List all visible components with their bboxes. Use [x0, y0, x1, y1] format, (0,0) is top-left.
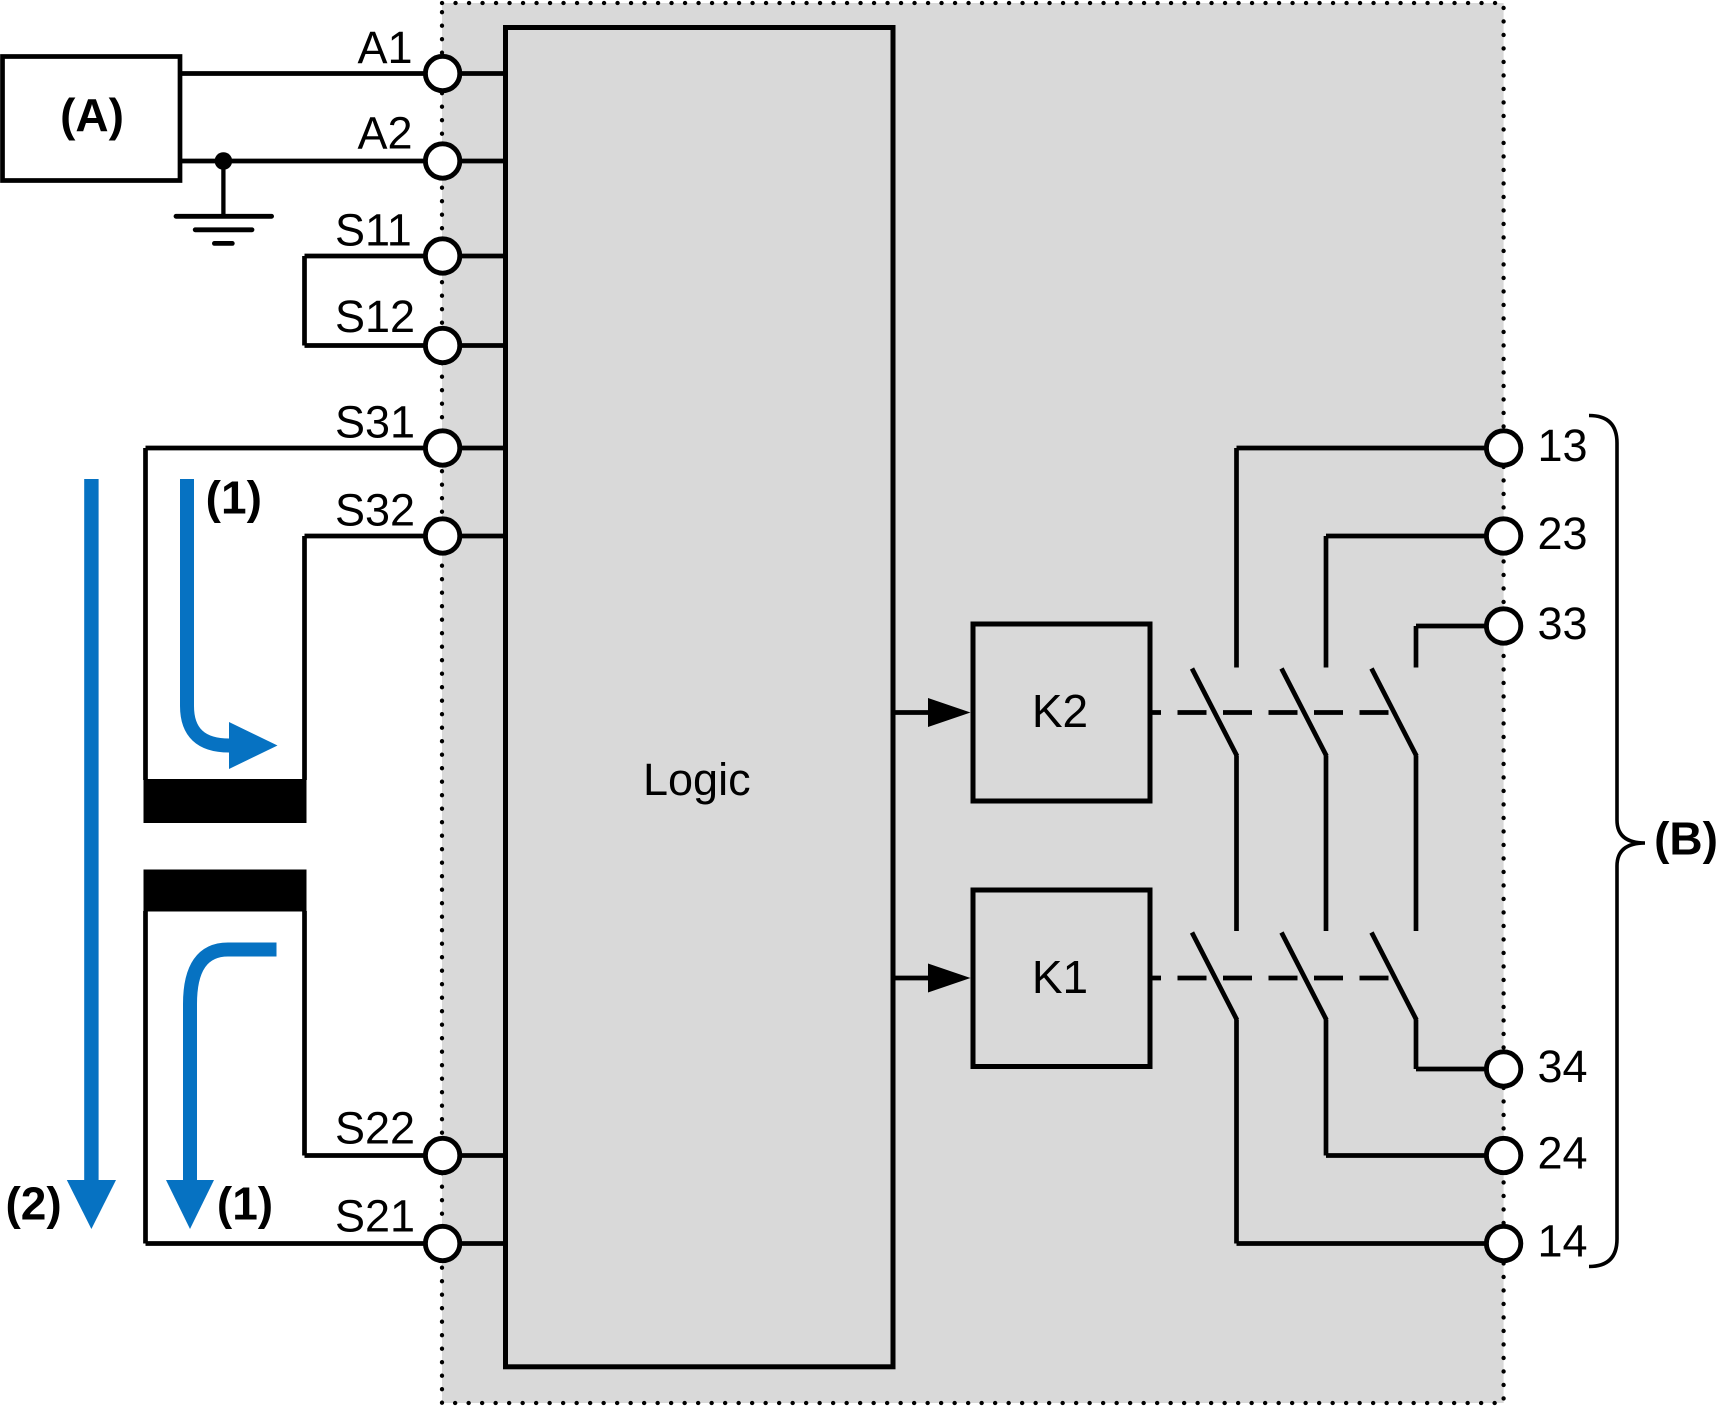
wire 24: [1326, 1153, 1504, 1158]
wire S22: [305, 1153, 506, 1158]
contact K2.3 blade: [1372, 669, 1417, 757]
terminal S22: [425, 1138, 459, 1172]
terminal 13: [1486, 431, 1520, 465]
terminal circles left: [425, 56, 459, 1260]
blue arrow (2) long: [67, 479, 116, 1229]
svg-text:S12: S12: [335, 291, 415, 342]
svg-text:23: 23: [1538, 508, 1588, 559]
svg-text:S31: S31: [335, 397, 415, 448]
terminal 33: [1486, 609, 1520, 643]
svg-text:S11: S11: [335, 205, 412, 256]
contact K2.2 blade: [1282, 669, 1327, 757]
switch contact block lower: [144, 870, 307, 912]
wire S11-S12 jumper: [302, 256, 307, 346]
blue arrow (1) upper: [187, 479, 278, 769]
svg-text:A2: A2: [358, 108, 413, 159]
svg-text:S32: S32: [335, 485, 415, 536]
contact chain 13-14: [1192, 448, 1504, 1244]
Logic box U3: [506, 28, 894, 1367]
wire S31: [146, 446, 506, 451]
terminal 14: [1486, 1226, 1520, 1260]
svg-text:14: 14: [1538, 1216, 1588, 1267]
junction dot on A2: [215, 152, 233, 170]
wire 13: [1237, 446, 1504, 451]
contact K1.1 blade: [1192, 933, 1237, 1021]
svg-text:34: 34: [1538, 1041, 1588, 1092]
relay K2: [973, 624, 1150, 801]
contact K1.3 blade: [1372, 933, 1417, 1021]
terminal A1: [425, 56, 459, 90]
wire S11: [305, 254, 506, 259]
terminal S31: [425, 431, 459, 465]
svg-text:(A): (A): [60, 89, 124, 141]
svg-text:24: 24: [1538, 1128, 1588, 1179]
wire A1: [180, 71, 506, 76]
blue arrow (1) lower: [166, 950, 277, 1230]
svg-text:S22: S22: [335, 1103, 415, 1154]
svg-text:(2): (2): [5, 1178, 61, 1230]
wire 14: [1237, 1241, 1504, 1246]
terminal 24: [1486, 1138, 1520, 1172]
wire S21: [146, 1241, 506, 1246]
contact K1.2 blade: [1282, 933, 1327, 1021]
svg-text:A1: A1: [358, 22, 413, 73]
svg-text:(1): (1): [206, 472, 262, 524]
block (A) power supply: [3, 57, 181, 181]
contact chain 33-34: [1372, 626, 1504, 1069]
svg-text:S21: S21: [335, 1191, 415, 1242]
terminal S11: [425, 239, 459, 273]
dashed actuation line K2: [1150, 710, 1390, 715]
wire A2: [180, 159, 506, 164]
svg-text:K2: K2: [1032, 685, 1088, 737]
wire S32: [305, 534, 506, 539]
svg-text:(1): (1): [217, 1178, 273, 1230]
svg-text:33: 33: [1538, 598, 1588, 649]
terminal 23: [1486, 519, 1520, 553]
ground: [176, 161, 272, 243]
relay K1: [973, 890, 1150, 1067]
terminal 34: [1486, 1052, 1520, 1086]
wire S21 vertical: [143, 911, 148, 1244]
terminal labels right: [1538, 420, 1588, 1267]
terminal A2: [425, 144, 459, 178]
terminal S21: [425, 1226, 459, 1260]
arrow into K2: [893, 710, 929, 715]
brace (B): [1589, 416, 1645, 1267]
wire S31 vertical: [143, 448, 148, 780]
contact K2.1 blade: [1192, 669, 1237, 757]
wire S12: [305, 343, 506, 348]
svg-text:(B): (B): [1654, 813, 1718, 865]
wire 33: [1416, 624, 1504, 629]
svg-text:K1: K1: [1032, 951, 1088, 1003]
dashed actuation line K1: [1150, 976, 1390, 981]
wire 34: [1416, 1067, 1504, 1072]
wire S32 vertical: [302, 536, 307, 780]
wire S22 vertical: [302, 911, 307, 1156]
contact chain 23-24: [1282, 536, 1504, 1156]
arrow into K1: [893, 976, 929, 981]
svg-text:13: 13: [1538, 420, 1588, 471]
wire 23: [1326, 534, 1504, 539]
switch contact block upper: [144, 779, 307, 823]
terminal S32: [425, 519, 459, 553]
terminal circles right: [1486, 431, 1520, 1261]
safety module gray area with dotted border: [442, 3, 1504, 1403]
svg-text:Logic: Logic: [643, 754, 751, 805]
terminal S12: [425, 328, 459, 362]
terminal labels left: [335, 22, 415, 1242]
